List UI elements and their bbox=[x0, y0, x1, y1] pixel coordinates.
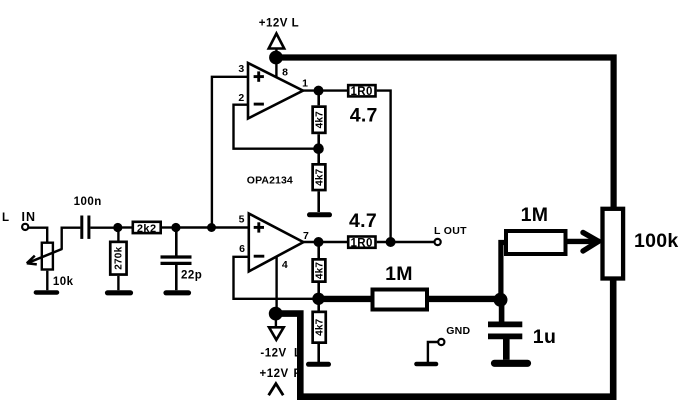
node: output bus junction bbox=[386, 237, 396, 247]
svg-text:+12V: +12V bbox=[260, 368, 289, 380]
wire: thick divider node to 1M bbox=[319, 296, 373, 302]
op-amp U1a minus input mark bbox=[254, 103, 264, 106]
resistor 4k7 (lower divider, U1b) bbox=[313, 312, 326, 343]
ground symbol (1u, thick) bbox=[495, 360, 528, 367]
svg-text:5: 5 bbox=[239, 214, 245, 226]
ground symbol (270k) bbox=[108, 290, 131, 295]
svg-text:1M: 1M bbox=[385, 263, 413, 285]
wire: +12V triangle stub to rail bbox=[275, 49, 277, 58]
capacitor 22p bbox=[161, 255, 192, 258]
resistor 1R0 (U1a output) bbox=[348, 85, 375, 96]
wire: 100n to 270k node bbox=[90, 226, 117, 228]
wire: 2k2 to 22p node bbox=[162, 226, 176, 228]
ground symbol (divider) bbox=[309, 362, 329, 367]
wire: stub to -12V triangle bbox=[275, 314, 277, 328]
wire: thick 1M to pot wiper arrow bbox=[566, 239, 598, 244]
svg-text:1u: 1u bbox=[533, 326, 556, 348]
svg-text:2: 2 bbox=[238, 92, 244, 104]
wire: junction down to 22p bbox=[175, 228, 178, 256]
wire: pin 2 feedback loop (op-amp U1a) bbox=[234, 105, 319, 149]
op-amp U1a plus input mark bbox=[254, 75, 264, 78]
potentiometer 100k body bbox=[603, 209, 624, 279]
svg-text:4: 4 bbox=[282, 259, 288, 271]
wire: input to pot top bbox=[29, 228, 48, 242]
svg-text:2k2: 2k2 bbox=[137, 223, 157, 235]
wire: 270k to ground bbox=[117, 276, 119, 290]
svg-text:-12V: -12V bbox=[260, 347, 286, 359]
wire: splitter node down to 1u bbox=[499, 300, 505, 322]
capacitor 100n bbox=[80, 216, 83, 239]
wire: pin 6 feedback loop (op-amp U1b) bbox=[234, 257, 319, 299]
capacitor 1u bbox=[488, 321, 522, 327]
op-amp U1b triangle bbox=[249, 214, 304, 272]
node: rail splitter junction dot bbox=[494, 293, 508, 307]
ground symbol (10k pot) bbox=[36, 290, 57, 295]
input terminal circle bbox=[22, 224, 28, 230]
+12V R supply caret symbol bbox=[269, 384, 284, 396]
ground symbol (GND terminal) bbox=[417, 362, 437, 367]
GND terminal circle bbox=[438, 339, 444, 345]
svg-text:+12V L: +12V L bbox=[259, 18, 299, 30]
wire: 1u to ground bbox=[503, 339, 510, 360]
svg-text:10k: 10k bbox=[53, 276, 74, 288]
wire: thick +12V rail to 100k pot top bbox=[276, 58, 614, 209]
svg-text:100n: 100n bbox=[74, 196, 102, 208]
wire: U1b output junction down to 4k7 bbox=[317, 242, 320, 258]
node: +12V rail junction dot bbox=[269, 51, 283, 65]
node: divider mid junction bbox=[312, 293, 324, 305]
svg-text:4k7: 4k7 bbox=[315, 318, 326, 336]
wire: junction to 270k bbox=[117, 228, 119, 241]
svg-text:22p: 22p bbox=[181, 269, 202, 281]
ground symbol (22p) bbox=[166, 290, 189, 295]
op-amp U1b plus input mark bbox=[254, 226, 264, 229]
wire: GND terminal to ground bbox=[428, 342, 438, 362]
node: junction dot at 270k bbox=[113, 223, 122, 232]
svg-text:4k7: 4k7 bbox=[314, 262, 325, 280]
node: pin 4 rail junction dot bbox=[269, 307, 283, 321]
svg-text:270k: 270k bbox=[114, 246, 125, 269]
svg-text:4.7: 4.7 bbox=[349, 210, 377, 232]
resistor 270k bbox=[110, 242, 126, 275]
svg-text:GND: GND bbox=[446, 325, 470, 337]
resistor 4k7 (upper divider, U1b) bbox=[313, 259, 326, 281]
svg-text:4k7: 4k7 bbox=[315, 168, 326, 186]
wire: thick up to 1M (wiper) bbox=[501, 243, 506, 300]
wire: thick 1M to cap node bbox=[427, 296, 501, 302]
svg-text:1R0: 1R0 bbox=[350, 86, 372, 98]
wire: 4k7 to mid junction bbox=[317, 283, 320, 311]
svg-text:1: 1 bbox=[302, 77, 308, 89]
wire: 4k7 to feedback junction bbox=[317, 134, 320, 163]
wire: 1R0 to L OUT bbox=[377, 241, 435, 243]
svg-text:7: 7 bbox=[303, 230, 309, 242]
wire: U1b output to 1R0 bbox=[303, 241, 347, 243]
svg-text:4k7: 4k7 bbox=[315, 111, 326, 129]
wire: U1a output to 1R0 bbox=[303, 89, 347, 91]
+12V L supply triangle symbol bbox=[269, 34, 285, 49]
output terminal circle bbox=[435, 239, 441, 245]
op-amp U1b minus input mark bbox=[254, 255, 265, 258]
svg-text:IN: IN bbox=[22, 210, 37, 224]
resistor 1M (wiper feed) bbox=[506, 231, 566, 254]
wire: 4k7 to ground bbox=[317, 344, 320, 362]
wire: pin 8 power stub bbox=[275, 58, 277, 79]
svg-text:L: L bbox=[2, 212, 10, 224]
resistor 4k7 (lower, U1a to ground) bbox=[313, 164, 326, 190]
svg-text:1R0: 1R0 bbox=[350, 238, 372, 250]
resistor 1M (to rail splitter) bbox=[373, 290, 428, 310]
ground symbol (U1a divider) bbox=[310, 212, 330, 217]
-12V L supply triangle symbol bbox=[269, 327, 284, 340]
svg-text:100k: 100k bbox=[634, 230, 679, 252]
wire: pin 3 input wire bbox=[212, 77, 248, 228]
wire: pot bottom to ground bbox=[46, 271, 48, 291]
svg-text:4.7: 4.7 bbox=[350, 105, 378, 127]
svg-text:L OUT: L OUT bbox=[434, 225, 467, 237]
wire: pin 4 power stub bbox=[275, 256, 277, 313]
wire: signal to pin 5 bbox=[176, 226, 249, 228]
svg-text:OPA2134: OPA2134 bbox=[247, 175, 293, 187]
node: U1a output junction bbox=[314, 86, 324, 96]
node: junction dot input bus bbox=[207, 223, 216, 232]
wire: thick rail pin4 node to 100k pot bottom bbox=[276, 279, 614, 397]
svg-text:1M: 1M bbox=[521, 204, 549, 226]
node: junction dot at 22p bbox=[171, 223, 180, 232]
op-amp U1a triangle bbox=[248, 63, 303, 119]
wire: wiper up to signal line bbox=[62, 228, 81, 250]
resistor 1R0 (U1b output) bbox=[348, 237, 375, 248]
wire: node to 2k2 bbox=[118, 226, 132, 228]
wire: output junction down to 4k7 bbox=[317, 91, 320, 106]
potentiometer 10k body bbox=[42, 243, 53, 270]
wire: 22p to ground bbox=[175, 265, 178, 290]
potentiometer 100k wiper arrowhead bbox=[583, 233, 599, 242]
resistor 4k7 (upper feedback, U1a) bbox=[313, 107, 326, 133]
node: feedback junction dot U1a bbox=[313, 143, 324, 154]
node: U1b output junction bbox=[314, 237, 324, 247]
resistor 2k2 bbox=[133, 222, 161, 233]
svg-text:8: 8 bbox=[282, 66, 288, 78]
potentiometer 10k wiper arrow bbox=[27, 249, 62, 263]
wire: 1R0 to output bus bbox=[377, 91, 391, 242]
wire: 4k7 to ground bbox=[317, 191, 320, 212]
svg-text:3: 3 bbox=[238, 63, 244, 75]
svg-text:6: 6 bbox=[239, 243, 245, 255]
